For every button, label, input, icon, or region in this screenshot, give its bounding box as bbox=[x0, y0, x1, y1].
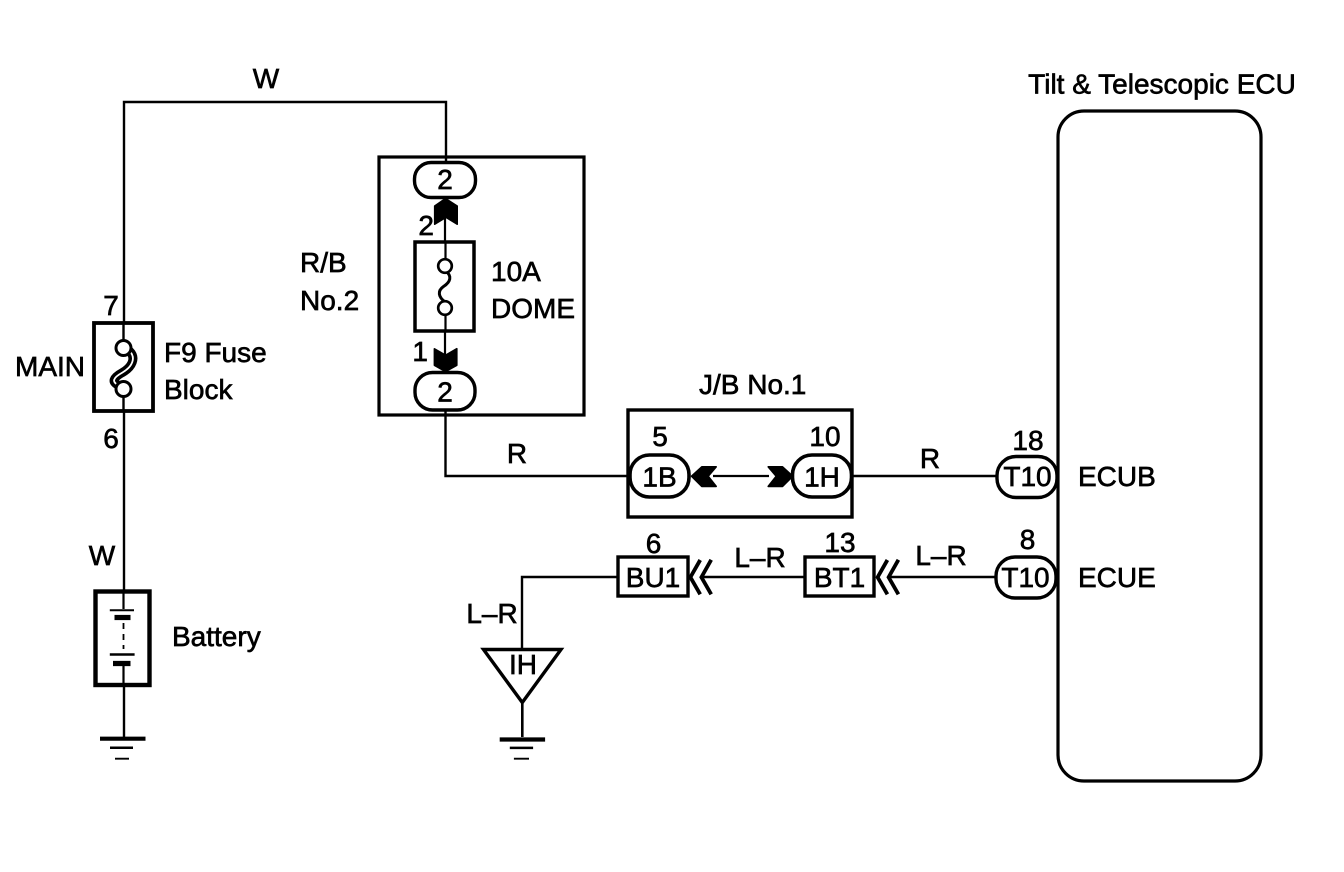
svg-text:Block: Block bbox=[164, 374, 233, 405]
ground (IH) bbox=[500, 740, 545, 759]
ground point triangle IH bbox=[484, 649, 562, 703]
svg-text:W: W bbox=[89, 540, 116, 571]
arrow right (toward 1H) bbox=[768, 467, 793, 487]
svg-text:ECUB: ECUB bbox=[1078, 461, 1156, 492]
svg-text:T10: T10 bbox=[1001, 562, 1049, 593]
arrow down (to pin 1) bbox=[434, 349, 456, 372]
wire: BU1 to ground point IH bbox=[522, 577, 618, 650]
connector BU1 bbox=[618, 557, 688, 596]
svg-text:7: 7 bbox=[103, 290, 119, 321]
svg-text:BU1: BU1 bbox=[626, 562, 680, 593]
wire R: R/B No.2 pin 2 to J/B No.1 1B bbox=[446, 410, 633, 477]
arrow up (to pin 2) bbox=[435, 199, 458, 225]
svg-text:18: 18 bbox=[1012, 425, 1043, 456]
svg-text:J/B No.1: J/B No.1 bbox=[699, 369, 806, 400]
connector oval 2 (top of R/B No.2) bbox=[415, 163, 476, 198]
svg-text:8: 8 bbox=[1020, 524, 1036, 555]
label R/B No.2 bbox=[300, 247, 359, 316]
svg-text:1H: 1H bbox=[804, 462, 840, 493]
svg-text:R: R bbox=[507, 438, 527, 469]
svg-text:2: 2 bbox=[437, 377, 453, 408]
svg-text:5: 5 bbox=[652, 421, 668, 452]
wire L-R: T10 pin 8 to BT1 bbox=[889, 576, 996, 578]
ECU box Tilt & Telescopic ECU bbox=[1058, 111, 1261, 781]
svg-text:10: 10 bbox=[809, 421, 840, 452]
svg-text:No.2: No.2 bbox=[300, 285, 359, 316]
wire R: 1H to T10 pin 18 bbox=[852, 475, 1000, 477]
connector oval 1H bbox=[793, 455, 852, 497]
battery B1 bbox=[96, 591, 150, 685]
connector oval 1B bbox=[630, 455, 689, 497]
svg-text:R: R bbox=[920, 443, 940, 474]
svg-text:IH: IH bbox=[509, 649, 537, 680]
svg-text:MAIN: MAIN bbox=[15, 351, 85, 382]
svg-text:Tilt & Telescopic ECU: Tilt & Telescopic ECU bbox=[1028, 69, 1296, 100]
relay block R/B No.2 box bbox=[379, 157, 584, 415]
svg-text:10A: 10A bbox=[491, 256, 541, 287]
svg-text:BT1: BT1 bbox=[814, 562, 865, 593]
wire: fuse to bottom connector (inside R/B) bbox=[444, 331, 446, 374]
wire: battery to ground bbox=[123, 685, 125, 737]
svg-text:13: 13 bbox=[824, 527, 855, 558]
arrow left (toward 1B) bbox=[692, 467, 717, 487]
svg-text:6: 6 bbox=[646, 528, 662, 559]
svg-text:2: 2 bbox=[437, 164, 453, 195]
fuse value label 10A DOME bbox=[491, 256, 575, 324]
junction block J/B No.1 box bbox=[628, 410, 852, 517]
chevrons at BT1 bbox=[878, 560, 899, 595]
svg-text:L–R: L–R bbox=[915, 540, 966, 571]
wire L-R: BT1 to BU1 bbox=[702, 576, 805, 578]
svg-text:ECUE: ECUE bbox=[1078, 562, 1156, 593]
chevrons at BU1 bbox=[690, 560, 711, 595]
svg-text:Battery: Battery bbox=[172, 621, 261, 652]
wire inside J/B between arrows bbox=[713, 475, 769, 477]
svg-text:1B: 1B bbox=[642, 462, 676, 493]
wire W: fuse block pin 7 up, across, down to R/B No.2 pin 2 bbox=[124, 102, 446, 352]
connector BT1 bbox=[805, 557, 874, 596]
connector oval T10 (ECUE, pin 8) bbox=[996, 557, 1056, 598]
wire: MAIN fuse block pin 6 down to battery bbox=[123, 384, 125, 590]
ground (battery) bbox=[100, 739, 146, 759]
label F9 Fuse Block bbox=[164, 337, 267, 405]
svg-text:6: 6 bbox=[103, 423, 119, 454]
fuse 10A DOME bbox=[415, 242, 474, 331]
wire: fuse to top connector (inside R/B) bbox=[444, 197, 446, 242]
connector oval 2 (bottom of R/B No.2) bbox=[415, 373, 475, 411]
svg-text:L–R: L–R bbox=[734, 542, 785, 573]
svg-text:F9 Fuse: F9 Fuse bbox=[164, 337, 267, 368]
svg-text:T10: T10 bbox=[1003, 461, 1051, 492]
svg-text:DOME: DOME bbox=[491, 293, 575, 324]
svg-text:R/B: R/B bbox=[300, 247, 347, 278]
svg-text:1: 1 bbox=[412, 336, 428, 367]
svg-text:W: W bbox=[253, 63, 280, 94]
fuse F9 MAIN block bbox=[94, 323, 153, 411]
connector oval T10 (ECUB, pin 18) bbox=[997, 457, 1057, 498]
svg-text:2: 2 bbox=[418, 210, 434, 241]
wire: IH to ground bbox=[521, 702, 524, 737]
svg-text:L–R: L–R bbox=[466, 598, 517, 629]
